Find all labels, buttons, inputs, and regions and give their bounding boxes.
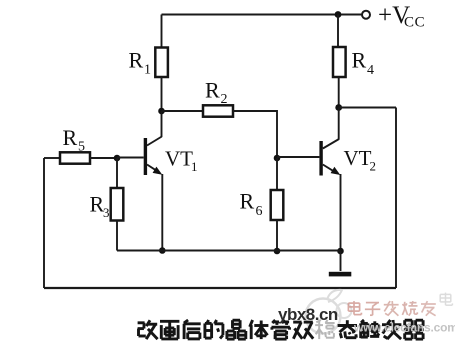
svg-text:www.elecfans.com: www.elecfans.com bbox=[353, 321, 455, 335]
svg-text:2: 2 bbox=[221, 92, 228, 107]
wire R4 top lead bbox=[337, 15, 339, 48]
resistor R3 body bbox=[111, 188, 124, 221]
terminal +Vcc (open circle) bbox=[362, 11, 370, 19]
svg-text:VT: VT bbox=[344, 146, 372, 170]
wire VT2 emitter down to ground node bbox=[340, 174, 342, 251]
ground symbol stem bbox=[340, 251, 342, 271]
wire ground rail (emitter bus) bbox=[117, 250, 341, 252]
transistor VT1 emitter stroke with arrow bbox=[147, 165, 156, 171]
wire R5 left lead bbox=[44, 157, 60, 159]
caption title text (Chinese, drawn as strokes) bbox=[138, 320, 424, 339]
wire node C down to R3 bbox=[116, 158, 118, 188]
resistor R2 body bbox=[203, 105, 233, 116]
svg-text:6: 6 bbox=[256, 204, 263, 219]
ground symbol bar bbox=[329, 272, 352, 277]
wire R6 bottom lead to ground rail bbox=[276, 220, 278, 251]
node A: VT1 collector / R1 / R2 junction dot bbox=[158, 108, 165, 115]
svg-text:R: R bbox=[205, 78, 220, 103]
svg-text:ybx8.cn: ybx8.cn bbox=[278, 305, 338, 324]
node B: VT2 base / R2 / R6 junction dot bbox=[274, 155, 281, 162]
watermark logo circle (light gray) bbox=[306, 299, 341, 334]
watermark gray glyph box top right bbox=[440, 293, 452, 306]
svg-text:3: 3 bbox=[103, 205, 110, 220]
transistor VT2 collector stroke bbox=[323, 139, 339, 149]
svg-text:VT: VT bbox=[165, 147, 193, 171]
transistor VT1 base bar bbox=[144, 138, 147, 175]
wire left feedback rail (R5 to bottom) bbox=[43, 158, 45, 288]
wire node B down to R6 bbox=[276, 158, 278, 190]
transistor VT2 emitter stroke with arrow bbox=[323, 165, 333, 171]
watermark red text dianzifashaoyou bbox=[348, 301, 435, 316]
transistor VT2 base bar bbox=[319, 141, 322, 176]
svg-text:1: 1 bbox=[144, 63, 151, 78]
node D: VT1 emitter / ground rail junction dot bbox=[159, 247, 166, 254]
wire junction to Vcc terminal bbox=[338, 14, 362, 16]
wire R4 bottom lead to VT2 collector node bbox=[338, 77, 340, 107]
watermark small circle bbox=[337, 303, 352, 318]
wire VT1 emitter down to ground rail bbox=[161, 174, 163, 251]
svg-text:R: R bbox=[352, 48, 367, 73]
resistor R5 body bbox=[60, 152, 90, 163]
wire R3 bottom lead to ground rail bbox=[116, 221, 118, 251]
wire R1 top lead bbox=[161, 15, 163, 48]
transistor VT1 collector stroke bbox=[147, 137, 162, 146]
node E: R6 / ground rail junction dot bbox=[274, 248, 281, 255]
wire node A to R2 left bbox=[162, 110, 204, 112]
svg-text:1: 1 bbox=[191, 159, 198, 174]
wire VT2 base lead from node B bbox=[277, 156, 319, 158]
resistor R4 body bbox=[333, 47, 346, 77]
wire bottom feedback rail bbox=[44, 287, 396, 289]
svg-text:CC: CC bbox=[404, 15, 425, 31]
node G: VT2 emitter / ground rail junction dot bbox=[337, 248, 344, 255]
svg-text:R: R bbox=[129, 48, 144, 73]
resistor R6 body bbox=[271, 190, 284, 220]
svg-text:R: R bbox=[240, 189, 255, 214]
wire right feedback rail down bbox=[395, 108, 397, 289]
wire top rail from R1 top to Vcc junction bbox=[162, 14, 339, 16]
node F: VT2 collector / R4 / feedback wire junction dot bbox=[335, 104, 342, 111]
svg-text:5: 5 bbox=[78, 140, 85, 155]
wire R5 right lead to VT1 base node bbox=[90, 157, 117, 159]
wire R2 right lead bbox=[233, 110, 277, 112]
wire VT1 collector to node A bbox=[161, 111, 163, 137]
wire VT1 base lead bbox=[117, 157, 144, 159]
svg-text:4: 4 bbox=[367, 63, 374, 78]
node top junction dot at Vcc rail / R4 bbox=[335, 11, 342, 18]
wire node F to right feedback rail bbox=[339, 107, 396, 109]
resistor R1 body bbox=[155, 48, 168, 78]
wire VT2 collector to node F bbox=[338, 108, 340, 140]
svg-text:R: R bbox=[63, 125, 78, 150]
wire R1 bottom lead to collector node bbox=[161, 77, 163, 111]
svg-text:2: 2 bbox=[370, 159, 377, 174]
wire down to VT2 base node bbox=[276, 110, 278, 158]
node C: VT1 base / R5 / R3 junction dot bbox=[114, 155, 121, 162]
